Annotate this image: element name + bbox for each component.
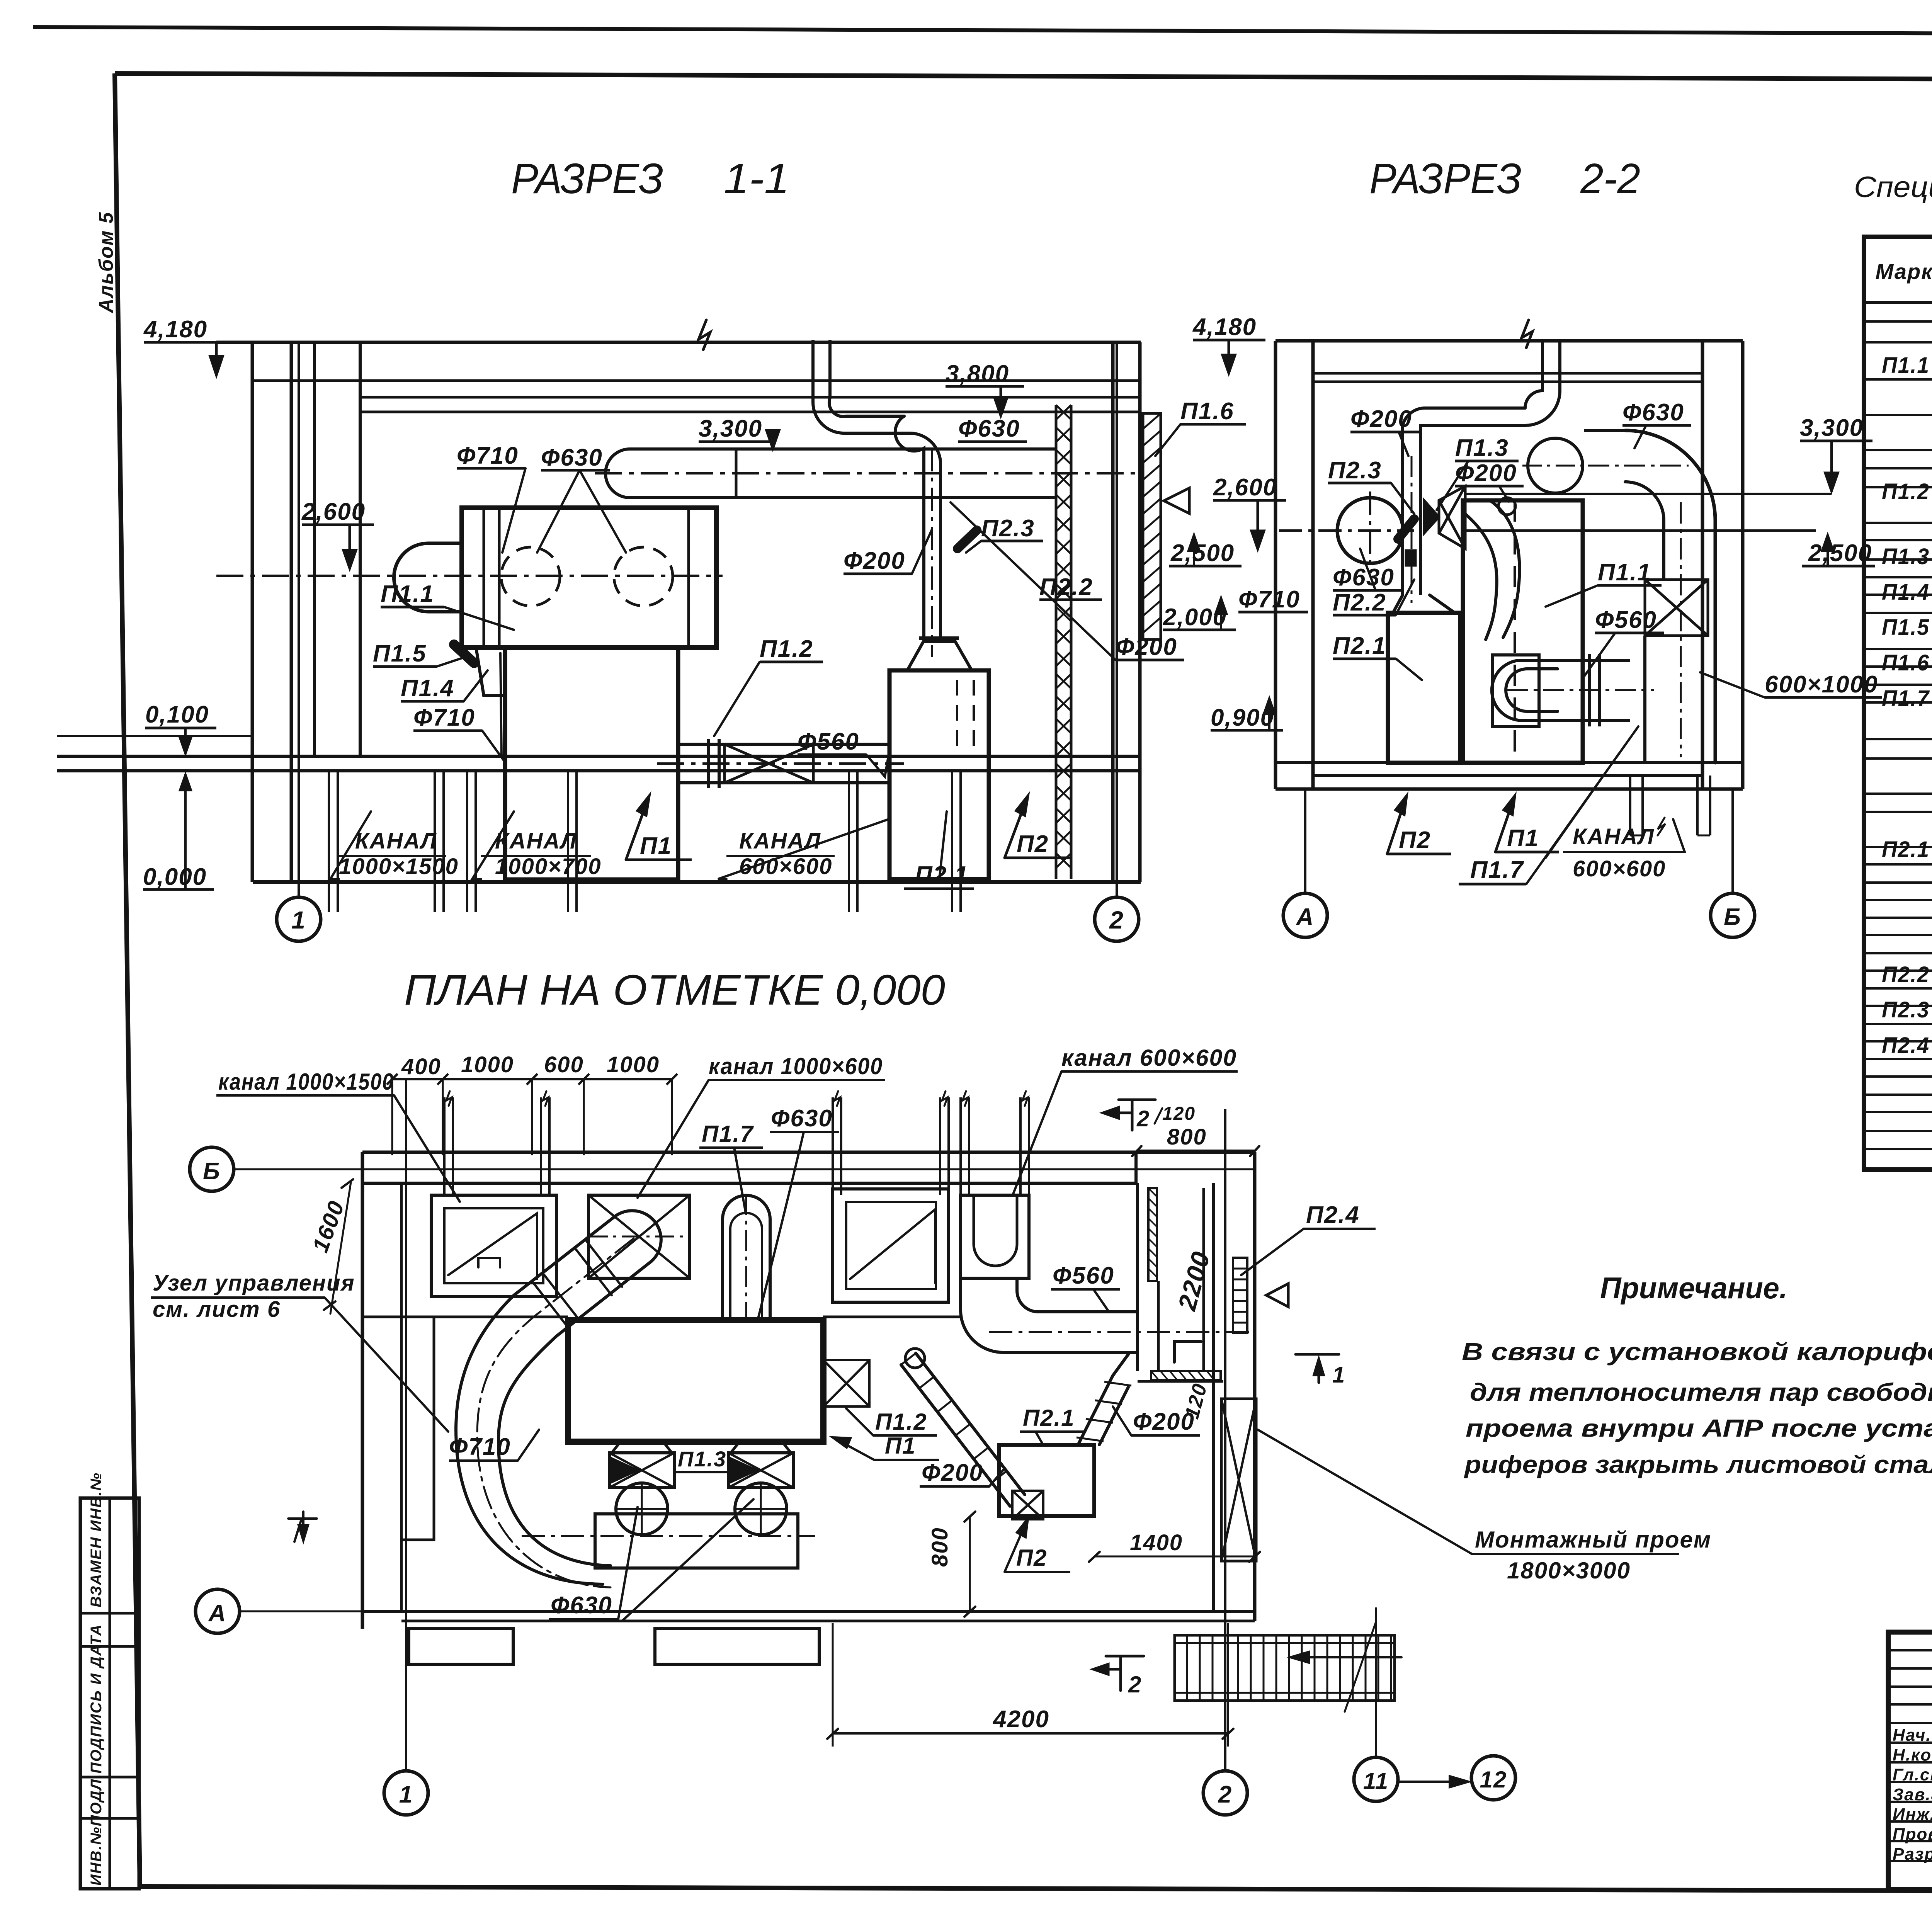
leader Ф710-Ф630 to fans bbox=[502, 468, 626, 553]
sec2 unit П1.1 box bbox=[1463, 500, 1583, 763]
leader Ф200 sec2 bbox=[1399, 432, 1408, 456]
leader Ф200 plan a bbox=[989, 1468, 1005, 1486]
plan top dim line bbox=[392, 1078, 672, 1080]
svg-text:120: 120 bbox=[1162, 1104, 1196, 1124]
svg-text:Ф560: Ф560 bbox=[798, 728, 859, 755]
tb row line 6 bbox=[1888, 1761, 1932, 1764]
svg-text:0,100: 0,100 bbox=[145, 701, 209, 728]
plan C duct centerline bbox=[477, 1238, 634, 1587]
svg-text:П1.2: П1.2 bbox=[1882, 479, 1930, 504]
svg-text:1000×1500: 1000×1500 bbox=[339, 854, 459, 879]
svg-text:1: 1 bbox=[1332, 1362, 1345, 1388]
svg-text:П1.6: П1.6 bbox=[1882, 650, 1930, 675]
sec2 bottom line bbox=[1276, 787, 1743, 791]
plan zone line b bbox=[823, 1316, 962, 1318]
flange П2.2 black mark sec2 bbox=[1406, 550, 1416, 566]
dim 800 plan ticks bbox=[964, 1512, 975, 1617]
label Ф200 plan b underline bbox=[1131, 1434, 1200, 1437]
label П1.6 underline bbox=[1180, 423, 1246, 426]
svg-text:Гл.спец.: Гл.спец. bbox=[1893, 1765, 1932, 1784]
svg-text:П2: П2 bbox=[1016, 1545, 1048, 1571]
spec header bottom bbox=[1864, 301, 1932, 304]
svg-text:4,180: 4,180 bbox=[1192, 314, 1257, 340]
svg-text:Ф710: Ф710 bbox=[449, 1434, 511, 1460]
svg-text:2-2: 2-2 bbox=[1580, 155, 1640, 202]
svg-text:400: 400 bbox=[401, 1054, 441, 1079]
grid circle 2 plan bbox=[1203, 1771, 1247, 1815]
sec2 U duct bottom line bbox=[1558, 719, 1630, 722]
label П1.2 plan underline bbox=[873, 1434, 937, 1437]
leader П1.6 bbox=[1155, 424, 1180, 456]
tb row line 3 bbox=[1888, 1703, 1932, 1706]
sec1 ceiling line 3 bbox=[361, 396, 1141, 399]
leader П1.2 sec1 bbox=[714, 662, 760, 736]
channel wall below bbox=[434, 882, 436, 912]
grid circle 1 sec1 bbox=[277, 897, 321, 941]
label П1.3 plan underline bbox=[676, 1471, 736, 1473]
sec2 pipe elbow outer bbox=[1403, 408, 1525, 425]
plan left pad bbox=[401, 1317, 434, 1540]
label П1.7 sec2 underline bbox=[1459, 883, 1526, 886]
svg-text:Ф200: Ф200 bbox=[1350, 406, 1412, 432]
svg-text:П1.4: П1.4 bbox=[401, 675, 454, 702]
svg-text:1400: 1400 bbox=[1130, 1530, 1183, 1555]
svg-text:П1: П1 bbox=[1507, 825, 1539, 852]
plan dim tick bbox=[527, 1074, 537, 1085]
sec2 unit П2.1 box bbox=[1388, 613, 1460, 763]
label П2.4 underline bbox=[1304, 1228, 1376, 1230]
grid circle Б plan bbox=[190, 1147, 234, 1191]
plan shaft W3b break bbox=[942, 1091, 947, 1106]
sec2 elbow centerline v bbox=[1680, 502, 1682, 757]
dim 2,600 mid arrow bbox=[1252, 500, 1264, 549]
sec2 level line 2500 bbox=[1464, 529, 1816, 532]
duct Ф630 top bbox=[630, 447, 1056, 451]
svg-text:Н.контр.: Н.контр. bbox=[1893, 1745, 1932, 1764]
plan bottom wall a bbox=[362, 1610, 1255, 1613]
label П2.1 sec2 underline bbox=[1333, 658, 1396, 660]
plan Ф710 duct diag wall b bbox=[514, 1216, 616, 1295]
svg-text:КАНАЛ: КАНАЛ bbox=[1573, 824, 1655, 849]
label Ф630 right underline bbox=[958, 440, 1027, 443]
plan C duct inner bbox=[456, 1295, 603, 1584]
channel wall bbox=[328, 771, 330, 882]
sec1 ceiling top line bbox=[216, 341, 1141, 344]
leader Ф710 plan bbox=[518, 1430, 539, 1461]
svg-text:Нач.отд.: Нач.отд. bbox=[1893, 1726, 1932, 1745]
svg-text:Б: Б bbox=[1724, 904, 1742, 930]
svg-text:В связи с установкой калорифер: В связи с установкой калориферов КП3-СК bbox=[1462, 1338, 1932, 1366]
plan fan right X box bbox=[728, 1453, 793, 1488]
pipe Ф200 centerline bbox=[931, 448, 933, 657]
plan right wall inner bbox=[1212, 1183, 1215, 1611]
label Ф710 underline bbox=[457, 467, 526, 470]
leader П1.4 bbox=[464, 670, 488, 701]
leader Ф200 plan b bbox=[1113, 1406, 1131, 1435]
svg-text:Примечание.: Примечание. bbox=[1600, 1271, 1787, 1305]
leader П2.1 sec2 bbox=[1396, 659, 1422, 680]
svg-text:Ф630: Ф630 bbox=[541, 444, 603, 471]
grid circle A sec2 bbox=[1283, 893, 1327, 937]
tb row line 10 bbox=[1888, 1840, 1932, 1842]
channel wall below bbox=[442, 882, 445, 912]
svg-text:П2.2: П2.2 bbox=[1333, 589, 1386, 616]
sec2 elbow top edge bbox=[1584, 429, 1625, 432]
plan zone line a bbox=[362, 1316, 568, 1318]
tb row line 8 bbox=[1888, 1801, 1932, 1803]
svg-text:1: 1 bbox=[291, 906, 306, 934]
sec2 pipe up inner bbox=[1525, 341, 1560, 425]
plan window W2 outer bbox=[588, 1195, 690, 1278]
arrow 11 to 12 bbox=[1399, 1776, 1468, 1787]
plan fan right flange trap bbox=[731, 1442, 791, 1453]
label Ф560 sec1 underline bbox=[798, 753, 866, 756]
tb row line 0 bbox=[1888, 1649, 1932, 1651]
П2.1 inner dashed b bbox=[973, 680, 975, 746]
grid axis 1 sec1 bbox=[298, 342, 300, 897]
dim 2,500 sec2 underline bbox=[1802, 565, 1875, 568]
label П1.5 underline bbox=[373, 665, 437, 668]
svg-text:Провер.: Провер. bbox=[1893, 1825, 1932, 1844]
plan bottom pad left bbox=[409, 1629, 513, 1664]
plan shaft W4b wall2 bbox=[1028, 1097, 1030, 1195]
sec2 circle Ф630 bbox=[1528, 438, 1583, 493]
dim 2,500 sec2 arrow bbox=[1822, 535, 1833, 566]
sec2 ceiling line3 bbox=[1313, 381, 1702, 383]
fan axis dash-dot bbox=[216, 575, 723, 577]
sec2 channel bottom tick b bbox=[1697, 835, 1710, 837]
plan dim tick bbox=[578, 1074, 589, 1085]
plan fan right cross bbox=[735, 1483, 787, 1535]
plan shaft W1b wall1 bbox=[540, 1097, 542, 1195]
duct Ф630 tick bbox=[735, 449, 738, 498]
svg-text:Ф630: Ф630 bbox=[958, 415, 1020, 442]
svg-text:Инж.Iк.: Инж.Iк. bbox=[1893, 1805, 1932, 1824]
plan dim ext line bbox=[583, 1079, 585, 1155]
plan hatched wall bbox=[1148, 1188, 1157, 1281]
channel wall bbox=[856, 771, 859, 882]
svg-text:П2: П2 bbox=[1399, 827, 1431, 854]
leader КАНАЛ 600x600 plan bbox=[1012, 1071, 1061, 1196]
plan sec2 mark bottom bbox=[1094, 1656, 1144, 1690]
svg-text:Узел управления: Узел управления bbox=[153, 1270, 355, 1296]
dim 0,100 underline bbox=[145, 727, 216, 730]
sec2 П1.1 inner line b bbox=[1581, 500, 1584, 763]
label КАНАЛ b underline bbox=[481, 855, 591, 857]
plan shaft W1a wall2 bbox=[452, 1097, 454, 1195]
dim 2,600 left underline bbox=[302, 524, 374, 526]
plan C duct outer bbox=[498, 1336, 611, 1566]
leader П1.5 bbox=[437, 657, 466, 667]
label П1 sec2 underline bbox=[1495, 851, 1559, 854]
dim 1400 line bbox=[1094, 1556, 1255, 1558]
plan fan left flange trap bbox=[612, 1442, 672, 1453]
plan window W3 fold bbox=[850, 1209, 935, 1283]
dim 800 plan line bbox=[969, 1516, 971, 1611]
label Ф630b sec2 underline bbox=[1333, 589, 1401, 592]
sec2 pipe Ф200 wall a bbox=[1401, 425, 1404, 595]
plan Ф560 elbow inner bbox=[1017, 1278, 1136, 1312]
sec2 valve П1.3 wedge bbox=[1424, 500, 1439, 533]
sec2 circle Ф630 centerline h bbox=[1522, 465, 1590, 467]
plan Ф560 elbow outer bbox=[961, 1278, 1136, 1352]
grid axis А plan bbox=[240, 1611, 433, 1612]
sec1 right wall outer bbox=[1138, 342, 1142, 882]
svg-text:РАЗРЕЗ: РАЗРЕЗ bbox=[511, 155, 663, 202]
plan shaft W4a wall1 bbox=[959, 1097, 962, 1195]
sec2 pipe Ф200 wall b bbox=[1419, 425, 1422, 595]
plan fan left X box bbox=[609, 1453, 674, 1488]
sec2 S-pipe b bbox=[1465, 514, 1497, 639]
leader П2.4 bbox=[1241, 1229, 1304, 1275]
unit П1.1 inner divider a bbox=[483, 508, 485, 648]
stamp column inner vertical bbox=[109, 1498, 111, 1889]
plan corner bracket Г bbox=[1174, 1342, 1201, 1362]
leader П1.1 sec2 bbox=[1546, 585, 1598, 607]
plan corridor bottom line bbox=[1138, 1380, 1223, 1383]
sec2 floor line2 bbox=[1313, 774, 1702, 777]
dim 4200 line bbox=[833, 1732, 1228, 1735]
svg-text:П2.2: П2.2 bbox=[1882, 962, 1930, 987]
dim 0,000 underline bbox=[143, 888, 214, 891]
svg-text:П1.3: П1.3 bbox=[1455, 435, 1509, 461]
plan Ф710 duct cap bbox=[616, 1211, 661, 1261]
label П1 sec1 underline bbox=[626, 859, 692, 861]
grille П1.6 hatch bbox=[1143, 413, 1161, 633]
duct Ф630 round cap bbox=[605, 449, 657, 498]
svg-text:П1.5: П1.5 bbox=[373, 640, 427, 667]
svg-text:КАНАЛ: КАНАЛ bbox=[739, 828, 821, 854]
leader Ф630 plan bottom a bbox=[618, 1507, 638, 1619]
svg-text:П1.3: П1.3 bbox=[1882, 544, 1930, 569]
svg-text:П1.7: П1.7 bbox=[1470, 857, 1524, 883]
dim 1400 ticks bbox=[1089, 1552, 1260, 1562]
dim 3,300 sec2 underline bbox=[1800, 440, 1872, 442]
dim 3,300 sec2 arrow bbox=[1825, 441, 1838, 491]
leader Ф560 sec2 bbox=[1584, 633, 1615, 676]
leader Ф630 plan top bbox=[757, 1132, 804, 1321]
thermometer П2.3 mark sec2 bbox=[1398, 519, 1414, 539]
grid axis A sec2 bbox=[1304, 789, 1306, 893]
sec2 elbow outer bbox=[1625, 430, 1715, 763]
plan stairs rungs bbox=[1187, 1635, 1391, 1701]
sec2 channel wall bbox=[1709, 776, 1711, 835]
plan diag duct flange circle bbox=[905, 1349, 925, 1368]
label П2 plan underline bbox=[1005, 1571, 1070, 1573]
label Ф710 mid underline bbox=[1238, 611, 1308, 614]
plan shaft W4b break bbox=[1022, 1091, 1028, 1106]
svg-text:П1.1: П1.1 bbox=[1598, 559, 1651, 586]
channel wall below bbox=[575, 882, 578, 912]
dim 3,800 underline bbox=[946, 385, 1024, 388]
svg-text:П1.5: П1.5 bbox=[1882, 615, 1930, 640]
plan dim ext line bbox=[671, 1079, 673, 1155]
svg-text:Ф630: Ф630 bbox=[551, 1592, 612, 1619]
svg-text:600×1000: 600×1000 bbox=[1765, 671, 1878, 698]
plan window W1 outer bbox=[431, 1195, 556, 1296]
sec2 right wall outer bbox=[1741, 341, 1745, 789]
arrow П1 sec2 bbox=[1495, 796, 1515, 852]
svg-text:П2.3: П2.3 bbox=[1882, 997, 1930, 1022]
svg-text:П1.4: П1.4 bbox=[1882, 580, 1930, 605]
svg-text:11: 11 bbox=[1363, 1768, 1389, 1794]
plan shaft W1b break bbox=[543, 1091, 548, 1106]
label Ф200 sec1 left underline bbox=[844, 573, 912, 575]
dim 1600 line bbox=[330, 1182, 351, 1314]
leader КАНАЛ b bbox=[472, 811, 514, 879]
label Ф200 sec2 underline bbox=[1350, 431, 1419, 434]
channel wall bbox=[575, 771, 578, 882]
dim 4,180 right underline bbox=[1193, 339, 1265, 342]
svg-text:Ф630: Ф630 bbox=[1333, 564, 1395, 591]
leader П2.2 sec2 bbox=[1396, 580, 1414, 615]
label КАНАЛ c underline bbox=[726, 855, 835, 857]
sec1 ceiling break mark bbox=[699, 320, 710, 350]
leader Монтажный bbox=[1258, 1430, 1472, 1554]
label П2.1 plan underline bbox=[1020, 1430, 1084, 1433]
grid circle 1 plan bbox=[384, 1771, 428, 1815]
plan diag duct rungs bbox=[901, 1353, 1007, 1483]
leader П2.1 sec1 bbox=[939, 811, 947, 883]
dim 4200 ext b bbox=[1227, 1623, 1229, 1747]
spec table outer bbox=[1864, 237, 1932, 1170]
leader Ф710 lower bbox=[482, 653, 502, 757]
pipe Ф200 wall a bbox=[811, 340, 815, 403]
arrow П2 plan bbox=[1005, 1519, 1028, 1572]
svg-text:600×600: 600×600 bbox=[1573, 856, 1666, 881]
leader Ф560 sec1 bbox=[866, 750, 889, 777]
svg-text:П1.6: П1.6 bbox=[1180, 398, 1234, 425]
label Ф560 sec2 underline bbox=[1595, 632, 1664, 634]
channel wall below bbox=[959, 882, 962, 912]
plan fan right circle bbox=[735, 1483, 787, 1535]
plan window W1 inner bbox=[444, 1208, 543, 1283]
svg-text:Спецификация отопительно-венти: Спецификация отопительно-вентиляционных … bbox=[1854, 171, 1932, 204]
thermometer П1.5 mark bbox=[454, 645, 474, 663]
svg-text:Ф200: Ф200 bbox=[922, 1459, 983, 1486]
plan lower duct centerline bbox=[522, 1535, 815, 1537]
sec2 right wall inner bbox=[1701, 341, 1704, 789]
dim 0,900 mid underline bbox=[1211, 729, 1283, 732]
П2.1 top funnel bbox=[907, 641, 972, 670]
dim 800 line bbox=[1136, 1150, 1255, 1152]
plan shaft W1a break bbox=[446, 1091, 452, 1106]
dim 2,600 mid underline bbox=[1213, 499, 1286, 502]
sec2 ceiling top bbox=[1276, 339, 1743, 343]
sec2 ceiling break bbox=[1522, 320, 1532, 348]
grid axis Б plan bbox=[234, 1168, 1255, 1170]
plan Ф710 flange ticks bbox=[534, 1241, 622, 1329]
sec1 partition cross hatch bbox=[1056, 405, 1071, 868]
sec2 fan centerline h bbox=[1279, 529, 1414, 532]
plan Ф560 centerline bbox=[989, 1331, 1252, 1333]
grid axis 11 plan bbox=[1375, 1607, 1377, 1757]
label Ф630 underline bbox=[541, 469, 610, 472]
plan grille П2.4 rungs bbox=[1233, 1269, 1247, 1323]
plan right wall outer bbox=[1253, 1152, 1257, 1621]
plan stairs band bbox=[1175, 1635, 1395, 1701]
svg-text:П2.1: П2.1 bbox=[1333, 633, 1386, 659]
svg-text:Ф710: Ф710 bbox=[1238, 586, 1300, 613]
dim 2,000 mid underline bbox=[1163, 629, 1236, 631]
grid circle 11 plan bbox=[1354, 1757, 1398, 1801]
unit П2.1 box bbox=[889, 670, 989, 879]
svg-text:1000: 1000 bbox=[461, 1052, 514, 1077]
triangle mark mid bbox=[1164, 488, 1189, 514]
svg-text:2: 2 bbox=[1136, 1106, 1150, 1131]
svg-text:2: 2 bbox=[1128, 1672, 1142, 1697]
arrow П2 sec1 bbox=[1005, 796, 1028, 858]
label Монтажный underline bbox=[1472, 1553, 1679, 1555]
П1.1 connection trapezoid bbox=[476, 648, 505, 696]
svg-text:ПОДПИСЬ И ДАТА: ПОДПИСЬ И ДАТА bbox=[88, 1624, 105, 1774]
svg-text:3,800: 3,800 bbox=[946, 361, 1009, 387]
sec1 wall stub above floor bbox=[57, 735, 253, 737]
svg-text:ИНВ.№ПОДЛ.: ИНВ.№ПОДЛ. bbox=[88, 1774, 105, 1886]
leader П1.2 plan bbox=[846, 1408, 873, 1435]
leader П1.7 plan bbox=[734, 1148, 746, 1213]
label Ф630 plan top underline bbox=[770, 1131, 839, 1133]
sec2 valve П1.3 cone bbox=[1439, 486, 1465, 549]
dim 3,300 underline bbox=[699, 440, 775, 443]
plan window W2 cross bbox=[588, 1195, 690, 1278]
duct Ф630 centerline bbox=[595, 472, 1140, 474]
tb row line 9 bbox=[1888, 1820, 1932, 1823]
svg-text:3,300: 3,300 bbox=[1800, 415, 1864, 441]
tb row line 4 bbox=[1888, 1722, 1932, 1724]
drawing frame top bbox=[115, 73, 1932, 81]
svg-text:П2.3: П2.3 bbox=[1328, 457, 1382, 484]
arrow П1 plan bbox=[833, 1437, 874, 1460]
svg-text:П2.4: П2.4 bbox=[1882, 1033, 1930, 1058]
dim 4200 ticks bbox=[827, 1729, 1233, 1739]
plan shaft W1b wall2 bbox=[548, 1097, 551, 1195]
channel wall below bbox=[337, 882, 339, 912]
plan window W3 outer bbox=[833, 1189, 949, 1302]
plan unit П2.1 bbox=[999, 1445, 1094, 1516]
label Ф710 lower underline bbox=[413, 730, 482, 732]
dim 0,000 arrow bbox=[180, 775, 191, 889]
stamp column divider 3 bbox=[80, 1776, 139, 1779]
svg-text:Ф710: Ф710 bbox=[413, 704, 475, 731]
svg-text:800: 800 bbox=[927, 1527, 952, 1567]
label П2.2 sec2 underline bbox=[1333, 614, 1396, 617]
label П2 sec2 underline bbox=[1387, 853, 1451, 855]
grid circle А plan bbox=[196, 1589, 240, 1633]
sec2 pipe centerline bbox=[1411, 456, 1413, 603]
svg-text:Ф560: Ф560 bbox=[1053, 1262, 1114, 1289]
duct Ф710 round cap bbox=[394, 543, 462, 612]
svg-text:1000: 1000 bbox=[607, 1052, 660, 1077]
svg-text:600: 600 bbox=[544, 1052, 584, 1077]
label Ф630 plan bottom underline bbox=[549, 1618, 618, 1620]
label П1.1 underline bbox=[381, 606, 444, 609]
pipe Ф200 wall b bbox=[828, 340, 832, 398]
leader Ф200 sec1 right bbox=[951, 502, 1116, 660]
plan П1.7 duct bbox=[723, 1196, 770, 1320]
svg-text:КАНАЛ: КАНАЛ bbox=[355, 828, 437, 854]
plan dim ext line bbox=[391, 1079, 393, 1155]
drawing frame left bbox=[115, 73, 140, 1886]
plan wall mid vertical bbox=[1136, 1183, 1139, 1371]
leader П2.1 plan bbox=[1036, 1432, 1043, 1445]
dim 4,180 right arrow bbox=[1223, 340, 1235, 373]
channel wall bbox=[567, 771, 569, 882]
svg-text:П1.1: П1.1 bbox=[1882, 353, 1930, 378]
П2.1 funnel flange bbox=[919, 636, 959, 640]
sec2 П2.1 funnel bbox=[1393, 595, 1455, 613]
sec2 channel break bbox=[1658, 818, 1665, 835]
